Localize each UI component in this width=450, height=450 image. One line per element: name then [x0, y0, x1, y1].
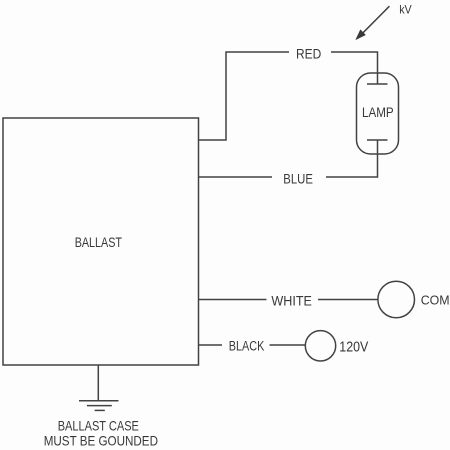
terminal COM circle: [378, 281, 415, 318]
wire red right segment: [331, 52, 378, 84]
svg-text:LAMP: LAMP: [362, 104, 394, 120]
wire white right segment: [318, 299, 378, 301]
ground bar 3: [95, 409, 105, 411]
ballast box: [3, 118, 199, 365]
svg-text:120V: 120V: [339, 340, 368, 356]
wire black right segment: [270, 344, 306, 346]
terminal 120V circle: [305, 331, 335, 361]
wire white left segment: [199, 299, 267, 301]
ground bar 1: [79, 400, 119, 402]
svg-text:COM: COM: [421, 292, 450, 307]
ground stem wire: [97, 365, 99, 401]
lamp LAMP outline: [357, 73, 399, 154]
wire blue right segment: [326, 140, 378, 177]
kV arrow line: [362, 6, 390, 34]
svg-text:BALLAST CASE: BALLAST CASE: [58, 418, 139, 434]
lamp electrode top: [367, 83, 388, 85]
svg-text:kV: kV: [399, 2, 412, 16]
lamp electrode bottom: [367, 139, 388, 141]
svg-text:WHITE: WHITE: [271, 292, 312, 308]
wire blue left segment: [199, 176, 273, 178]
kV arrowhead: [356, 30, 365, 39]
svg-text:RED: RED: [296, 46, 321, 62]
ground bar 2: [87, 405, 112, 407]
wire black left segment: [199, 344, 223, 346]
wire red stub: [199, 52, 290, 140]
svg-text:MUST BE GOUNDED: MUST BE GOUNDED: [44, 432, 158, 448]
svg-text:BLUE: BLUE: [283, 170, 313, 186]
svg-text:BLACK: BLACK: [229, 338, 264, 353]
svg-text:BALLAST: BALLAST: [75, 234, 123, 250]
